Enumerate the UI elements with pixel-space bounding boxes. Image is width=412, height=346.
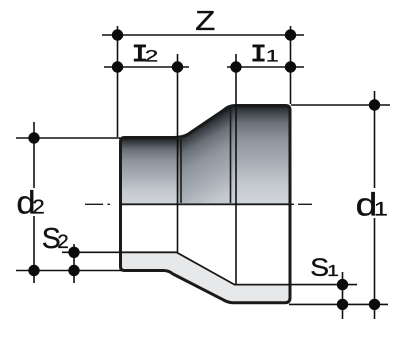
extension socket depth left — [177, 54, 179, 252]
junction line small/cone — [180, 139, 182, 204]
label background d2 — [15, 188, 47, 216]
reducer body small-end shading — [122, 139, 177, 203]
extension left end — [117, 26, 119, 137]
dot S1 top — [337, 279, 348, 290]
svg-text:1: 1 — [374, 200, 388, 221]
dot I2 right — [172, 61, 183, 72]
dot I1 right — [285, 61, 296, 72]
svg-text:Z: Z — [195, 5, 215, 36]
centerline — [85, 203, 312, 205]
inner bore section line — [121, 252, 289, 284]
svg-text:2: 2 — [32, 197, 45, 219]
ext line large bore inner — [289, 284, 357, 286]
extension socket depth right — [235, 54, 237, 285]
svg-text:1: 1 — [266, 48, 279, 66]
dim line I2 — [104, 66, 189, 68]
ext line small bottom outer — [16, 270, 122, 272]
dot Z left — [112, 29, 123, 40]
svg-text:1: 1 — [327, 263, 339, 280]
extension right end — [290, 26, 292, 104]
dim line S1 — [342, 272, 344, 319]
body outline lower — [121, 204, 291, 303]
ext line d2 top — [16, 137, 120, 139]
dot S2 top — [68, 247, 79, 258]
dot d1 bottom — [369, 299, 380, 310]
body outline upper — [121, 106, 291, 205]
dim line d1 — [374, 91, 376, 319]
dim line I1 — [227, 66, 304, 68]
dot d2 bottom — [28, 265, 39, 276]
dim line d2 — [33, 122, 35, 283]
junction line cone/large — [230, 107, 232, 203]
svg-text:2: 2 — [57, 232, 68, 253]
dot I1 left — [230, 61, 241, 72]
dot I2 left — [112, 61, 123, 72]
svg-text:I: I — [250, 41, 266, 70]
dim line S2 — [73, 244, 75, 283]
ext line small bore inner — [62, 251, 122, 253]
label background d1 — [354, 188, 388, 218]
dot S2 bottom — [68, 265, 79, 276]
dimension dots — [28, 29, 380, 310]
reducer body upper half base fill — [121, 106, 291, 205]
dot Z right — [285, 29, 296, 40]
ext line large bottom outer — [289, 303, 388, 305]
dot d1 top — [369, 99, 380, 110]
svg-text:2: 2 — [145, 48, 159, 66]
dim line Z — [102, 34, 304, 36]
dimension and extension lines — [16, 26, 390, 319]
reducer body cone shading — [177, 107, 233, 203]
dot S1 bottom — [337, 299, 348, 310]
reducer body lower-half sectioned wall band — [122, 252, 289, 302]
ext line d1 top — [291, 104, 390, 106]
dot d2 top — [28, 132, 39, 143]
